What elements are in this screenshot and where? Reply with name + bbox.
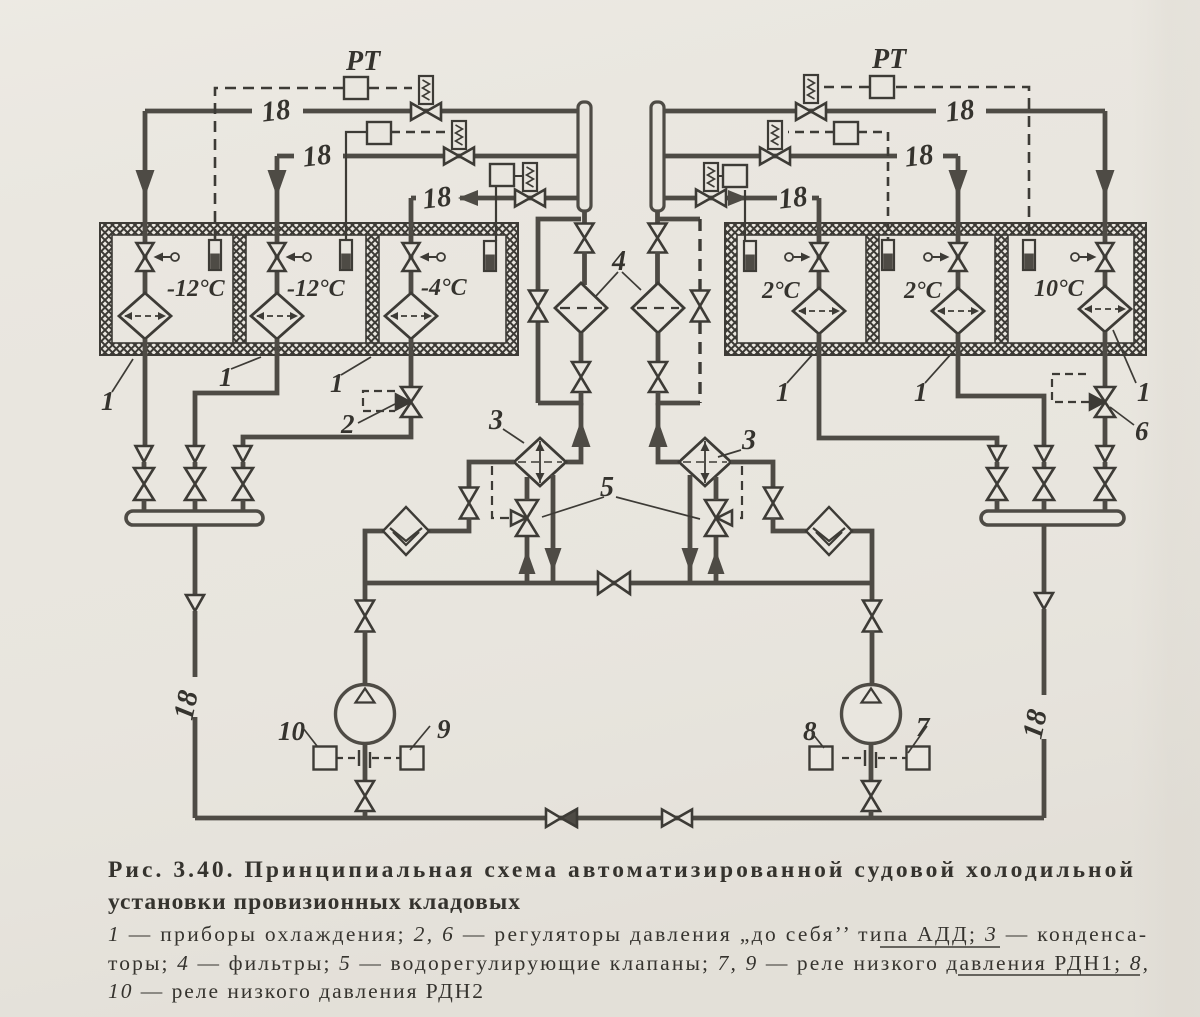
temperature sensor room 5 — [882, 240, 894, 270]
pressure regulator 6 (ADD type) — [1090, 387, 1115, 417]
wire suction column L2 stub — [193, 500, 198, 512]
wire room5 suction drop — [958, 334, 1044, 446]
wire suction line left down — [193, 611, 198, 818]
evaporator 1 room 3 (-4C) — [385, 293, 437, 339]
dashed link PT1-right to solenoid valve SV4 — [824, 86, 870, 89]
wire room3 evaporator feed — [409, 244, 414, 293]
wire filter-left to junction — [538, 392, 581, 403]
wire water outlet right — [688, 475, 693, 583]
flow arrow down into room 2 — [268, 170, 287, 197]
dashed links pressure switches right — [842, 757, 907, 759]
svg-text:18: 18 — [903, 138, 936, 173]
evaporator 1 room 4 (2C) — [793, 288, 845, 334]
wire compressor-left to bottom main — [363, 811, 368, 818]
shutoff valve suction column L3 lower — [233, 468, 253, 500]
flow arrow right toward room 4 — [728, 190, 748, 206]
wire compressor-right suction — [870, 583, 875, 601]
wire suction column R2 stub — [1042, 500, 1047, 512]
shutoff valve suction column L1 upper — [136, 446, 153, 462]
wire room3 drop to manifold — [243, 417, 411, 446]
wire room6 evaporator feed — [1103, 244, 1108, 286]
dashed capillary PT1-right to room 6 sensor — [896, 87, 1029, 241]
dashed capillary PT1-left to room 1 sensor — [215, 88, 344, 241]
leader label 9 — [410, 726, 430, 750]
thermostat PT box right — [870, 76, 894, 98]
label 18 L2 — [301, 138, 334, 173]
label 18 left suction (rotated) — [168, 687, 205, 723]
evaporator 1 room 1 (-12C) — [119, 293, 171, 339]
wire suction column R3 stub — [1103, 500, 1108, 512]
leader label 1 room3 — [341, 357, 371, 375]
leader label 8 — [812, 733, 824, 748]
shutoff valve suction column L1 lower — [134, 468, 154, 500]
wire liquid line R3 horizontal — [665, 196, 819, 201]
wire liquid line R2 drop to room 5 — [956, 156, 961, 244]
filter 4 right — [632, 283, 684, 333]
shutoff valve suction column L2 upper — [187, 446, 204, 462]
svg-text:10 — реле низкого давления РДН: 10 — реле низкого давления РДН2 — [108, 979, 483, 1003]
compressor right — [842, 685, 901, 744]
flow arrow up discharge left — [572, 420, 591, 447]
wire condenser-left inlet line — [469, 462, 514, 488]
svg-text:1: 1 — [330, 368, 344, 398]
suction header left — [126, 511, 263, 525]
dashed pilot box regulator 6 — [1052, 374, 1089, 402]
svg-text:4: 4 — [611, 246, 626, 277]
controller box loop3-left — [490, 164, 514, 186]
receiver vessel right — [651, 102, 664, 211]
dashed link PT1 to solenoid valve SV1 — [368, 87, 412, 90]
valve on bottom main — [662, 810, 692, 827]
svg-text:10°С: 10°С — [1034, 276, 1085, 302]
flow arrow left toward room 3 — [458, 190, 478, 206]
leader label 6 — [1110, 407, 1134, 425]
leader label 4 to right filter — [622, 272, 641, 290]
leader label 4 to left filter — [596, 272, 618, 296]
wire suction column R1 stub — [995, 500, 1000, 512]
leader label 5 to right valve — [616, 497, 700, 519]
temperature sensor room 2 — [340, 240, 352, 270]
expansion valve TXV room 1 — [137, 243, 180, 271]
wire suction outlet left — [193, 525, 198, 595]
wire liquid line R1 horizontal — [665, 109, 1105, 114]
leader label 1 room1 — [112, 359, 133, 392]
link loop3-left box to actuator — [514, 175, 523, 177]
shutoff valve suction column L3 upper — [235, 446, 252, 462]
wire compressor-right discharge — [869, 743, 874, 782]
label 18 L3 — [421, 180, 454, 215]
wire compressor-left discharge — [363, 743, 368, 782]
shutoff valve suction column L2 lower — [185, 468, 205, 500]
wire suction column R2 — [1042, 462, 1047, 469]
wire water valve left to condenser — [525, 477, 530, 500]
flow arrow down into room 5 — [949, 170, 968, 197]
svg-text:1: 1 — [219, 362, 233, 392]
wire liquid line R2 horizontal — [665, 154, 958, 159]
svg-text:6: 6 — [1135, 416, 1149, 446]
svg-text:10: 10 — [278, 716, 306, 746]
pressure switch 10 — [314, 747, 337, 770]
wire water valve right to condenser — [714, 477, 719, 500]
leader label 7 — [908, 726, 927, 753]
pressure switch 9 — [401, 747, 424, 770]
compressor left — [336, 685, 395, 744]
svg-text:18: 18 — [260, 93, 293, 128]
condenser 3 left — [514, 438, 566, 486]
valve below compressor right — [862, 781, 880, 811]
water regulating valve 5 right — [705, 500, 732, 536]
flow arrow down water outlet right — [682, 548, 699, 572]
wire valve to compressor left — [363, 631, 368, 686]
wire discharge riser right — [658, 403, 679, 462]
controller box loop3-right — [723, 165, 747, 187]
solenoid valve SV1-left — [411, 103, 441, 120]
valve on water main — [598, 572, 630, 594]
dashed capillary water valve left — [492, 466, 509, 518]
wire water inlet right — [714, 537, 719, 583]
valve below receiver right — [649, 224, 667, 253]
shutoff valve suction column R3 lower — [1095, 468, 1115, 500]
suction header right — [981, 511, 1124, 525]
svg-text:2: 2 — [340, 409, 355, 439]
wire liquid line L2 horizontal — [277, 154, 578, 159]
solenoid valve SV4-right — [796, 103, 826, 120]
solenoid actuator SV2-left — [452, 121, 466, 149]
wire liquid line L3 drop to room 3 — [409, 198, 414, 244]
wire filter-right to junction — [658, 392, 700, 403]
wire suction column R1 — [995, 462, 1000, 469]
label 18 R1 — [944, 93, 977, 128]
dashed links pressure switches left — [336, 757, 401, 759]
bypass valve right — [691, 291, 709, 322]
leader label 3 right — [718, 450, 741, 457]
svg-text:18: 18 — [421, 180, 454, 215]
leader label 1 room5 — [925, 354, 951, 383]
valve below filter right — [649, 362, 667, 392]
wire liquid line R1 drop to room 6 — [1103, 111, 1108, 244]
oil strainer left — [383, 507, 429, 555]
wire receiver-right to filter — [655, 252, 660, 285]
wire water main — [365, 581, 872, 586]
wall divider rooms 1-2 — [233, 235, 246, 343]
solenoid valve SV3-left — [515, 190, 545, 207]
wire bottom suction main — [195, 816, 1044, 821]
svg-text:РТ: РТ — [345, 46, 382, 77]
wire liquid line L1 drop to room 1 — [143, 111, 148, 244]
dashed bypass right — [698, 219, 701, 403]
wire room2 evaporator feed — [275, 244, 280, 293]
solenoid valve SV6-right — [696, 190, 726, 207]
wire suction column L2 — [193, 462, 198, 469]
cold-rooms enclosure right (insulated walls) — [725, 223, 1146, 355]
wire room3 suction drop — [409, 339, 414, 389]
underline artifact line3 — [880, 946, 1000, 948]
valve on suction outlet left — [186, 595, 204, 611]
wire liquid line R3 drop to room 4 — [817, 198, 822, 244]
flow arrow down water outlet left — [545, 548, 562, 572]
leader label 1 room6 — [1113, 330, 1136, 383]
underline artifact line4 — [958, 974, 1140, 976]
wire suction column L1 — [142, 462, 147, 469]
wire liquid line L1 horizontal — [145, 109, 578, 114]
pressure switch 8 — [810, 747, 833, 770]
temperature sensor room 4 — [744, 241, 756, 271]
wall divider rooms 2-3 — [366, 235, 379, 343]
wire water inlet left — [525, 537, 530, 583]
svg-text:-4°С: -4°С — [421, 275, 468, 301]
svg-text:8: 8 — [803, 716, 817, 746]
wall divider rooms 5-6 — [995, 235, 1008, 343]
temperature sensor room 3 — [484, 241, 496, 271]
solenoid actuator SV4-right — [804, 75, 818, 103]
leader label 3 left — [503, 429, 524, 443]
leader label 1 room4 — [787, 354, 813, 383]
wire strainer-right link — [773, 518, 872, 583]
flow arrow up water inlet right — [708, 550, 725, 574]
check valve on bottom main — [546, 809, 577, 827]
leader label 2 — [358, 404, 395, 423]
expansion valve TXV room 4 — [785, 243, 828, 271]
dashed link loop2-right to valve SV5 — [788, 131, 834, 134]
wire receiver-right outlet — [655, 211, 660, 225]
wall divider rooms 4-5 — [866, 235, 879, 343]
wire receiver-left to filter — [582, 252, 587, 285]
sensor line loop2-left to room 2 sensor — [346, 132, 367, 241]
wire compressor-left suction — [363, 583, 368, 601]
wire room6 drop to manifold — [1103, 417, 1108, 446]
pressure tap compressor left — [359, 750, 370, 768]
wire room6 suction drop — [1103, 332, 1108, 389]
wire filter-left outlet — [579, 333, 584, 363]
svg-text:торы; 4 — фильтры; 5 — водорег: торы; 4 — фильтры; 5 — водорегулирующие … — [108, 951, 1148, 975]
label 18 right suction (rotated) — [1017, 706, 1054, 742]
svg-text:18: 18 — [777, 180, 810, 215]
dashed pilot box regulator 2 — [363, 391, 395, 411]
wire room1 suction drop — [143, 339, 148, 446]
shutoff valve suction column R3 upper — [1097, 446, 1114, 462]
svg-text:-12°С: -12°С — [167, 276, 226, 302]
evaporator 1 room 2 (-12C) — [251, 293, 303, 339]
sensor line loop3-right to room 4 sensor — [744, 190, 746, 241]
wire bypass right top — [659, 217, 700, 222]
label 18 L1 — [260, 93, 293, 128]
shutoff valve suction column R1 upper — [989, 446, 1006, 462]
dashed capillary water valve right — [734, 466, 742, 518]
controller box loop2-right — [834, 122, 858, 144]
link loop3-right box to actuator — [717, 175, 723, 177]
wire water outlet left — [551, 475, 556, 583]
svg-text:1: 1 — [1137, 377, 1151, 407]
cold-rooms enclosure left (insulated walls) — [100, 223, 518, 355]
svg-text:18: 18 — [944, 93, 977, 128]
wire strainer-left link — [365, 518, 469, 583]
wire room4 evaporator feed — [817, 244, 822, 288]
expansion valve TXV room 6 — [1071, 243, 1114, 271]
valve on suction outlet right — [1035, 593, 1053, 609]
valve below receiver left — [576, 224, 594, 253]
leader label 5 to left valve — [542, 497, 604, 517]
wire room2 suction drop — [195, 339, 277, 446]
svg-text:-12°С: -12°С — [287, 276, 346, 302]
wire room4 suction drop — [819, 334, 997, 446]
bypass valve left — [529, 291, 547, 322]
svg-text:РТ: РТ — [871, 44, 908, 75]
flow arrow up discharge right — [649, 420, 668, 447]
solenoid actuator SV1-left — [419, 76, 433, 104]
controller box loop2-left — [367, 122, 391, 144]
wire suction column L3 stub — [241, 500, 246, 512]
solenoid actuator SV6-right — [704, 163, 718, 191]
shutoff valve suction column R1 lower — [987, 468, 1007, 500]
pressure switch 7 — [907, 747, 930, 770]
evaporator 1 room 5 (2C) — [932, 288, 984, 334]
svg-text:2°С: 2°С — [903, 278, 943, 304]
solenoid actuator SV3-left — [523, 163, 537, 191]
oil strainer right — [806, 507, 852, 555]
wire room5 evaporator feed — [956, 244, 961, 288]
receiver vessel left — [578, 102, 591, 211]
wire discharge riser left — [566, 403, 581, 462]
temperature sensor room 6 — [1023, 240, 1035, 270]
valve above compressor left — [356, 601, 374, 632]
label 18 R3 — [777, 180, 810, 215]
wire filter-right outlet — [656, 333, 661, 363]
wire condenser-right inlet line — [731, 462, 773, 488]
valve above compressor right — [863, 601, 881, 632]
leader label 1 room2 — [231, 357, 261, 369]
solenoid actuator SV5-right — [768, 121, 782, 149]
shutoff valve suction column R2 lower — [1034, 468, 1054, 500]
flow arrow down into room 6 — [1096, 170, 1115, 197]
svg-text:9: 9 — [437, 714, 451, 744]
svg-text:2°С: 2°С — [761, 278, 801, 304]
wire valve to compressor right — [870, 631, 875, 686]
temperature sensor room 1 — [209, 240, 221, 270]
thermostat PT box left — [344, 77, 368, 99]
wire room1 evaporator feed — [143, 244, 148, 293]
solenoid valve SV5-right — [760, 148, 790, 165]
dashed link loop2-left to valve SV2 — [391, 131, 446, 134]
condenser 3 right — [679, 438, 731, 486]
valve on condenser-left inlet — [460, 488, 478, 519]
water regulating valve 5 left — [511, 500, 538, 536]
wire receiver-left outlet — [582, 211, 587, 225]
label 18 R2 — [903, 138, 936, 173]
pressure tap compressor right — [865, 750, 876, 768]
wire liquid line L3 horizontal — [411, 196, 578, 201]
leader label 10 — [303, 728, 317, 746]
wire liquid line L2 drop to room 2 — [275, 156, 280, 244]
evaporator 1 room 6 (10C) — [1079, 286, 1131, 332]
wire suction column R3 — [1103, 462, 1108, 469]
expansion valve TXV room 3 — [403, 243, 446, 271]
flow arrow up water inlet left — [519, 550, 536, 574]
svg-text:3: 3 — [741, 425, 756, 456]
wire bypass left — [538, 219, 581, 403]
svg-text:18: 18 — [301, 138, 334, 173]
pressure regulator 2 (ADD type) — [396, 387, 421, 417]
wire suction column L3 — [241, 462, 246, 469]
svg-text:3: 3 — [488, 405, 503, 436]
wire compressor-right to bottom main — [869, 811, 874, 818]
expansion valve TXV room 2 — [269, 243, 312, 271]
sensor line loop3-left to room 3 sensor — [495, 184, 497, 241]
dashed sensor line loop2-right to room 5 sensor — [858, 132, 888, 241]
caption figure 3.40 — [108, 857, 1148, 1003]
shutoff valve suction column R2 upper — [1036, 446, 1053, 462]
flow arrow down into room 1 — [136, 170, 155, 197]
valve on condenser-right inlet — [764, 488, 782, 519]
wire suction outlet right — [1042, 525, 1047, 593]
filter 4 left — [555, 283, 607, 333]
solenoid valve SV2-left — [444, 148, 474, 165]
valve below filter left — [572, 362, 590, 392]
svg-text:Рис. 3.40. Принципиальная схем: Рис. 3.40. Принципиальная схема автомати… — [108, 857, 1133, 883]
svg-text:установки провизионных кладовы: установки провизионных кладовых — [108, 889, 520, 915]
wire suction line right down — [1042, 609, 1047, 818]
valve below compressor left — [356, 781, 374, 811]
expansion valve TXV room 5 — [924, 243, 967, 271]
wire suction column L1 stub — [142, 500, 147, 512]
